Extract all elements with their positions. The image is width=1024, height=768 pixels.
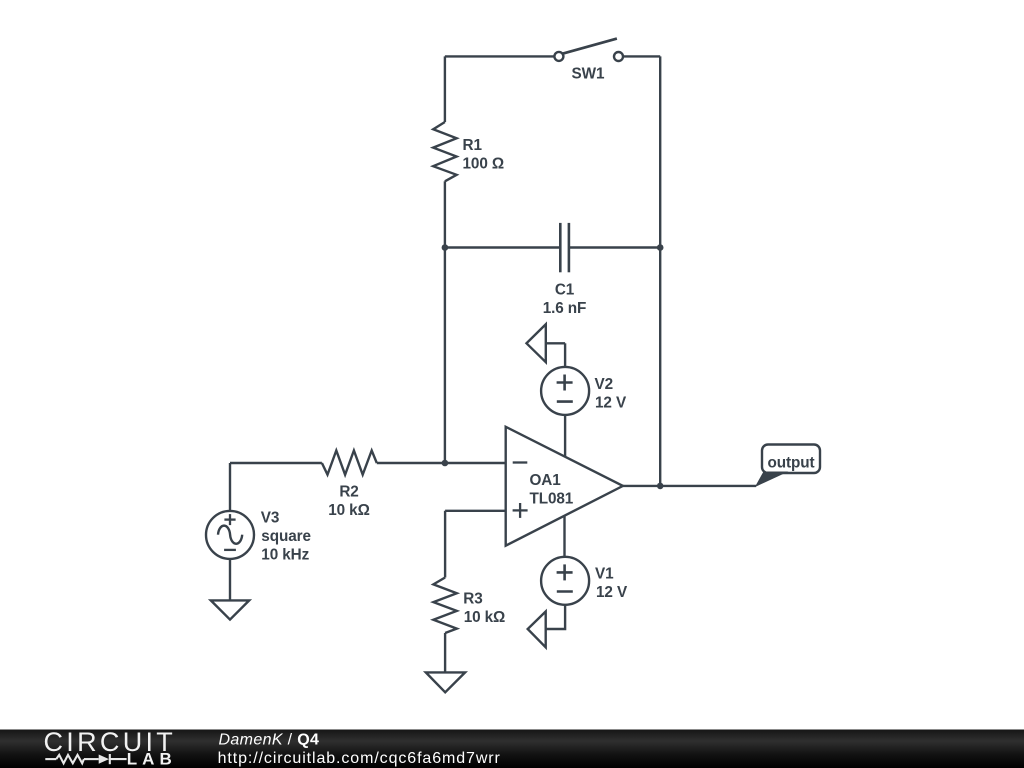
svg-text:OA1: OA1 xyxy=(530,472,562,489)
svg-text:1.6 nF: 1.6 nF xyxy=(543,300,587,317)
svg-text:C1: C1 xyxy=(555,282,575,299)
junction C1 right xyxy=(657,244,664,251)
svg-text:http://circuitlab.com/cqc6fa6m: http://circuitlab.com/cqc6fa6md7wrr xyxy=(218,750,501,767)
resistor R1 xyxy=(433,122,456,181)
svg-text:12 V: 12 V xyxy=(595,395,627,412)
resistor R3 xyxy=(433,578,456,634)
svg-text:TL081: TL081 xyxy=(530,490,574,507)
power flag V1 bottom xyxy=(528,612,546,648)
wire C1 left lead xyxy=(445,246,560,248)
flag output tail xyxy=(755,472,789,488)
svg-text:10 kΩ: 10 kΩ xyxy=(464,609,506,626)
ground V3 xyxy=(211,600,249,619)
svg-text:square: square xyxy=(261,528,311,545)
source V3 xyxy=(206,511,254,559)
svg-text:DamenK / Q4: DamenK / Q4 xyxy=(219,731,320,748)
wire left column C1 row to inverting node xyxy=(444,248,446,464)
wire V1 to power flag xyxy=(546,605,565,629)
wire right column vertical xyxy=(659,56,661,486)
wire output net xyxy=(623,485,756,487)
source V2 xyxy=(541,367,589,415)
wire SW1 to right column xyxy=(623,55,660,57)
wire C1 right lead xyxy=(569,246,660,248)
svg-text:10 kHz: 10 kHz xyxy=(261,546,309,563)
svg-text:100 Ω: 100 Ω xyxy=(463,156,505,173)
resistor R2 xyxy=(322,451,377,475)
junction C1 left xyxy=(442,244,449,251)
wire R3 to ground xyxy=(444,633,446,672)
svg-text:output: output xyxy=(768,454,815,471)
svg-text:V3: V3 xyxy=(261,510,280,527)
svg-text:SW1: SW1 xyxy=(572,66,605,83)
wire V3 to ground xyxy=(229,559,231,601)
wire left column top lead of R1 xyxy=(444,56,446,122)
wire inverting input lead xyxy=(445,462,506,464)
power flag V2 top xyxy=(527,324,566,362)
wire top net R1 to SW1 xyxy=(445,55,555,57)
wire V3 to R2 xyxy=(230,462,322,464)
svg-text:12 V: 12 V xyxy=(596,584,628,601)
footer bar xyxy=(0,730,1024,768)
svg-text:R3: R3 xyxy=(463,590,482,607)
wire V2 to op-amp V+ pin xyxy=(564,415,566,457)
svg-text:R1: R1 xyxy=(463,137,483,154)
flag output box xyxy=(762,445,820,474)
wire R1 bottom to C1 row xyxy=(444,181,446,247)
svg-text:V2: V2 xyxy=(595,376,614,393)
svg-text:V1: V1 xyxy=(595,566,614,583)
wire noninverting branch vertical xyxy=(444,511,446,578)
svg-text:LAB: LAB xyxy=(127,750,177,768)
ground R3 xyxy=(426,672,465,692)
svg-text:10 kΩ: 10 kΩ xyxy=(328,502,370,519)
capacitor C1 xyxy=(560,223,569,272)
wire flag to V2 xyxy=(564,343,566,367)
op-amp OA1 xyxy=(506,427,623,546)
wire R2 to inverting node xyxy=(377,462,445,464)
CircuitLab logo resistor-diode glyph xyxy=(45,754,126,764)
svg-text:R2: R2 xyxy=(339,483,358,500)
switch SW1 xyxy=(554,39,623,61)
wire op-amp V- pin xyxy=(563,516,565,557)
source V1 xyxy=(541,557,589,605)
wire noninverting input lead xyxy=(445,510,506,512)
junction output node xyxy=(657,483,664,490)
wire V3 top lead xyxy=(229,463,231,511)
junction inverting node xyxy=(442,460,449,467)
